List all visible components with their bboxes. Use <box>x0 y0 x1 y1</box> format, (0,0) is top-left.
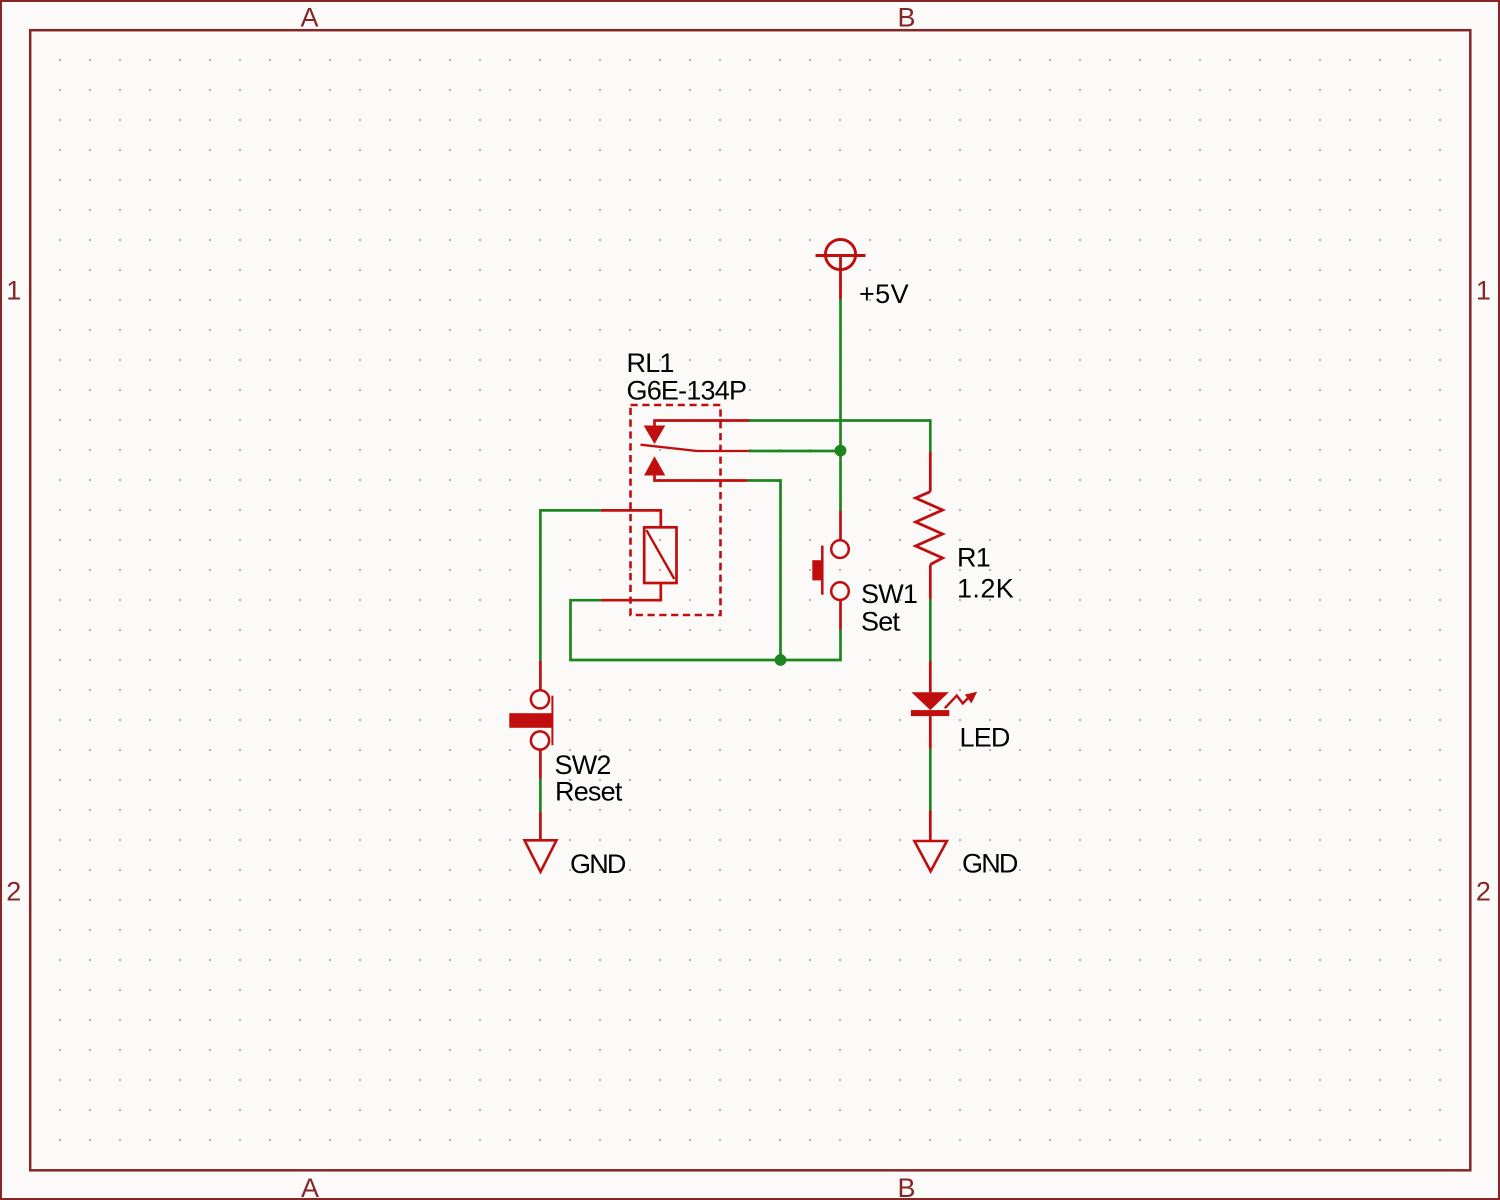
svg-text:2: 2 <box>1476 876 1491 906</box>
label SW2 <box>555 750 611 780</box>
label Reset <box>555 777 623 807</box>
svg-text:+5V: +5V <box>859 279 909 309</box>
label LED <box>960 723 1010 753</box>
ground right <box>914 811 947 872</box>
relay RL1 NO contact pin <box>644 456 748 480</box>
wire coil top to SW2 <box>540 510 601 661</box>
label GND left <box>570 849 626 879</box>
resistor R1 <box>916 452 943 599</box>
svg-text:1.2K: 1.2K <box>957 574 1014 604</box>
label 1.2K <box>957 574 1014 604</box>
relay RL1 coil <box>601 510 677 600</box>
svg-text:1: 1 <box>6 276 21 306</box>
svg-text:2: 2 <box>6 876 21 906</box>
svg-text:Set: Set <box>861 607 900 637</box>
wire relay common to +5V net <box>749 450 841 453</box>
wire relay NO down to bottom rail <box>748 481 781 661</box>
wire SW2 to GND <box>539 779 542 813</box>
svg-text:A: A <box>301 1173 319 1200</box>
label G6E-134P <box>627 376 747 406</box>
relay RL1 dashed box <box>631 405 721 615</box>
label R1 <box>957 542 990 572</box>
svg-text:G6E-134P: G6E-134P <box>627 376 747 406</box>
wire coil bottom to SW1 bottom <box>571 600 841 660</box>
svg-text:1: 1 <box>1476 276 1491 306</box>
relay RL1 NC contact pin <box>644 421 749 445</box>
relay RL1 common blade <box>641 445 750 451</box>
wire LED to GND <box>929 749 932 811</box>
switch SW2 Reset <box>509 661 553 779</box>
label SW1 <box>861 579 917 609</box>
svg-text:Reset: Reset <box>555 777 623 807</box>
ground left <box>525 812 557 872</box>
label +5V <box>859 279 909 309</box>
svg-text:SW1: SW1 <box>861 579 917 609</box>
wire +5V down to SW1 <box>839 299 842 511</box>
wire R1 to LED <box>929 599 932 662</box>
label RL1 <box>627 348 674 378</box>
svg-text:B: B <box>897 3 915 33</box>
switch SW1 Set <box>812 511 849 630</box>
junction NO / bottom rail <box>775 654 787 666</box>
LED <box>911 662 977 749</box>
power +5V <box>816 239 866 299</box>
svg-text:B: B <box>897 1173 915 1200</box>
svg-text:GND: GND <box>962 848 1018 878</box>
svg-text:GND: GND <box>570 849 626 879</box>
svg-text:A: A <box>300 3 318 33</box>
svg-text:RL1: RL1 <box>627 348 674 378</box>
svg-text:SW2: SW2 <box>555 750 611 780</box>
svg-text:R1: R1 <box>957 542 990 572</box>
svg-text:LED: LED <box>960 723 1010 753</box>
label Set <box>861 607 900 637</box>
label GND right <box>962 848 1018 878</box>
junction +5V / common <box>835 445 847 457</box>
wire relay NC to R1 <box>749 421 930 453</box>
